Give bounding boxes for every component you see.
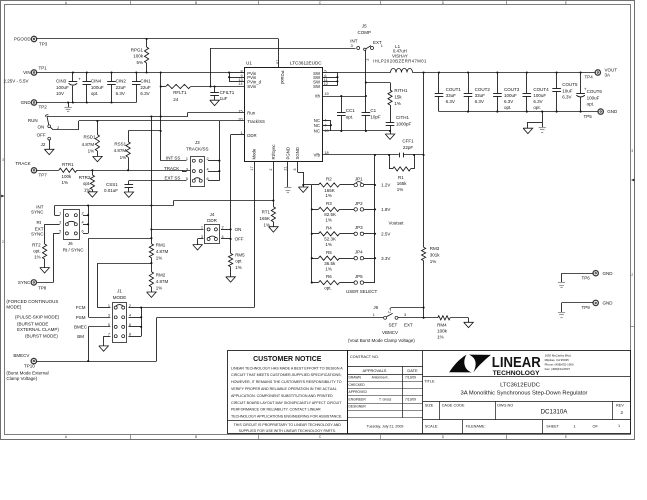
svg-text:Clamp Voltage): Clamp Voltage)	[6, 376, 37, 381]
svg-text:TP6: TP6	[582, 276, 591, 281]
svg-text:33uF: 33uF	[446, 93, 457, 98]
svg-text:1%: 1%	[437, 335, 444, 340]
capacitor COUT5	[556, 73, 558, 89]
svg-text:SET: SET	[389, 322, 398, 327]
svg-text:REV: REV	[616, 403, 624, 407]
svg-text:opt.: opt.	[83, 181, 91, 186]
wire Track/SS stub to J3 bus	[219, 120, 244, 122]
svg-text:Tuesday, July 21, 2009: Tuesday, July 21, 2009	[367, 424, 404, 428]
svg-text:7: 7	[108, 332, 110, 336]
svg-text:RM5: RM5	[235, 252, 245, 257]
svg-text:SIZE: SIZE	[425, 403, 434, 407]
test point TP7 TRACK	[31, 168, 36, 173]
svg-text:opt.: opt.	[346, 114, 354, 119]
svg-text:HOWEVER, IT REMAINS THE CUSTOM: HOWEVER, IT REMAINS THE CUSTOMER'S RESPO…	[231, 380, 342, 384]
test point TP1 VIN	[31, 70, 36, 75]
wire J3 pin3 TRACK	[182, 171, 187, 173]
svg-text:+: +	[584, 87, 587, 92]
svg-text:BMECV: BMECV	[13, 353, 29, 358]
resistor R1 parallel loop	[389, 155, 391, 169]
svg-text:TP3: TP3	[39, 42, 48, 47]
svg-text:(BURST MODE): (BURST MODE)	[25, 334, 58, 339]
resistor RTR2	[92, 170, 94, 175]
svg-text:SGND: SGND	[295, 147, 300, 159]
wire RSS1 top to riser	[128, 130, 161, 132]
capacitor CIN3	[72, 73, 74, 82]
svg-text:COUT4: COUT4	[533, 87, 549, 92]
svg-text:4.87M: 4.87M	[82, 142, 95, 147]
resistor RM1	[149, 244, 153, 258]
svg-text:4: 4	[207, 167, 209, 171]
svg-text:(Vout Burst Mode Clamp Voltage: (Vout Burst Mode Clamp Voltage)	[348, 338, 415, 343]
svg-text:Phone: (408)432-1900: Phone: (408)432-1900	[545, 362, 574, 366]
resistor R6 with jumper JP5	[311, 282, 313, 284]
svg-text:4: 4	[82, 221, 84, 225]
svg-text:100uF: 100uF	[533, 93, 546, 98]
svg-text:TECHNOLOGY APPLICATIONS ENGINE: TECHNOLOGY APPLICATIONS ENGINEERING FOR …	[231, 415, 342, 419]
wire J4 pin3 to ground	[198, 238, 204, 240]
ground earth below input bus	[68, 103, 70, 108]
svg-text:CIN1: CIN1	[140, 79, 151, 84]
connector J6 Rt/SYNC	[64, 210, 80, 240]
capacitor COUT4	[526, 73, 528, 94]
svg-text:3A: 3A	[605, 72, 611, 77]
svg-text:TP8: TP8	[38, 285, 47, 290]
svg-text:THIS CIRCUIT IS PROPRIETARY TO: THIS CIRCUIT IS PROPRIETARY TO LINEAR TE…	[234, 423, 342, 427]
svg-text:SYNC: SYNC	[31, 210, 44, 215]
svg-text:3: 3	[186, 167, 188, 171]
svg-text:2: 2	[82, 211, 84, 215]
svg-text:C1: C1	[370, 108, 376, 113]
svg-text:U1: U1	[246, 61, 252, 66]
svg-text:(BURST MODE: (BURST MODE	[17, 322, 48, 327]
svg-text:TP4: TP4	[585, 75, 594, 80]
svg-text:CFF1: CFF1	[402, 139, 414, 144]
svg-text:TRACK: TRACK	[15, 161, 30, 166]
svg-text:RTR1: RTR1	[62, 162, 74, 167]
svg-text:COMP: COMP	[358, 30, 372, 35]
svg-text:7/13/09: 7/13/09	[405, 397, 416, 401]
svg-text:1%: 1%	[84, 187, 91, 192]
wire VIN riser down to J3 INT SS	[160, 87, 162, 161]
wire RUN common to U1 Run pin	[47, 116, 188, 118]
capacitor CFILT1	[214, 87, 216, 93]
svg-text:NC: NC	[314, 129, 320, 134]
svg-text:EXTERNAL CLAMP): EXTERNAL CLAMP)	[17, 327, 59, 332]
svg-text:SUPPLIED FOR USE WITH LINEAR T: SUPPLIED FOR USE WITH LINEAR TECHNOLOGY …	[239, 429, 336, 433]
svg-text:33uF: 33uF	[475, 93, 486, 98]
inductor L1	[391, 68, 413, 72]
svg-text:FILENAME:: FILENAME:	[466, 424, 486, 428]
svg-text:1: 1	[618, 424, 620, 428]
svg-text:RT1: RT1	[262, 210, 271, 215]
wire PGOOD net	[37, 38, 279, 40]
title cell	[423, 376, 630, 378]
wire J1 pin1 FCM	[98, 307, 111, 309]
svg-text:CC1: CC1	[346, 108, 355, 113]
svg-text:J1: J1	[117, 289, 122, 294]
svg-text:2: 2	[365, 59, 369, 61]
svg-text:GND: GND	[607, 109, 618, 114]
wire comp INT line to J5	[210, 48, 212, 87]
svg-text:INT SS: INT SS	[166, 156, 180, 161]
svg-text:Rt: Rt	[37, 220, 42, 225]
svg-text:3A Monolithic Synchronous Step: 3A Monolithic Synchronous Step-Down Regu…	[461, 391, 588, 397]
svg-text:CIN4: CIN4	[91, 79, 102, 84]
svg-text:4: 4	[129, 314, 131, 318]
wire ladder left bus SGND	[311, 185, 313, 283]
svg-text:CHECKED: CHECKED	[349, 383, 366, 387]
svg-text:2: 2	[2, 240, 4, 244]
svg-text:RM4: RM4	[437, 323, 447, 328]
svg-text:22uF: 22uF	[116, 85, 127, 90]
svg-text:3: 3	[293, 168, 297, 170]
svg-text:R4: R4	[326, 225, 332, 230]
svg-text:6.3V: 6.3V	[504, 99, 513, 104]
svg-text:3.3V: 3.3V	[381, 256, 390, 261]
svg-text:165K: 165K	[259, 216, 270, 221]
svg-text:CUSTOMER NOTICE: CUSTOMER NOTICE	[253, 356, 322, 363]
svg-text:1%: 1%	[325, 242, 332, 247]
svg-text:6.3V: 6.3V	[140, 91, 149, 96]
svg-text:SHEET: SHEET	[546, 424, 559, 428]
svg-text:Track/SS: Track/SS	[247, 119, 265, 124]
svg-text:Antonina K.: Antonina K.	[372, 376, 389, 380]
svg-text:1uF: 1uF	[220, 96, 228, 101]
svg-text:CIN3: CIN3	[56, 79, 67, 84]
svg-text:8: 8	[129, 332, 131, 336]
svg-text:1%: 1%	[34, 255, 41, 260]
test point TP4 VOUT	[595, 70, 600, 75]
resistor RM5	[229, 253, 233, 266]
svg-text:1%: 1%	[120, 155, 127, 160]
wire J1 pin5 BMEC	[88, 326, 110, 328]
svg-text:CITH1: CITH1	[396, 115, 409, 120]
svg-text:RM2: RM2	[156, 273, 166, 278]
wire J9 pin2 to sense node	[391, 307, 423, 309]
wire J2 OFF to ground	[49, 140, 51, 149]
ground SGND triangle	[298, 187, 308, 192]
svg-text:22uF: 22uF	[140, 85, 151, 90]
test point TP5 GND	[598, 109, 603, 114]
wire J6 pin1 INT SYNC	[55, 215, 60, 217]
svg-text:15k: 15k	[394, 94, 402, 99]
svg-text:RUN: RUN	[28, 118, 38, 123]
svg-text:RFLT1: RFLT1	[173, 90, 187, 95]
svg-text:1%: 1%	[397, 187, 404, 192]
svg-text:CIN2: CIN2	[116, 79, 127, 84]
svg-text:10uF: 10uF	[562, 88, 573, 93]
capacitor CFF1	[399, 153, 401, 157]
svg-text:APPROVALS: APPROVALS	[363, 368, 387, 373]
svg-text:1%: 1%	[88, 148, 95, 153]
svg-text:opt.: opt.	[33, 249, 41, 254]
svg-text:ON: ON	[37, 125, 44, 130]
svg-text:1: 1	[59, 211, 61, 215]
svg-text:Rt/Sync: Rt/Sync	[271, 144, 276, 160]
svg-text:21: 21	[284, 166, 288, 170]
svg-text:14: 14	[238, 82, 242, 86]
svg-text:CONTRACT NO.: CONTRACT NO.	[350, 355, 379, 359]
wire J9 EXT to RM4	[398, 317, 438, 319]
test point TP2 GND	[31, 100, 36, 105]
resistor RTR1	[37, 170, 59, 172]
wire VOUT rail	[413, 72, 596, 74]
capacitor CIN4	[86, 73, 88, 82]
svg-text:TP7: TP7	[39, 173, 48, 178]
svg-text:TP10: TP10	[24, 363, 35, 368]
svg-text:JP5: JP5	[355, 274, 363, 279]
svg-text:1: 1	[373, 313, 375, 317]
svg-text:1%: 1%	[263, 223, 270, 228]
resistor RM4	[438, 316, 450, 320]
svg-text:SYNC: SYNC	[31, 231, 44, 236]
svg-text:100uF: 100uF	[587, 95, 600, 100]
svg-text:BMEC: BMEC	[74, 325, 88, 330]
svg-text:82.5K: 82.5K	[324, 212, 336, 217]
svg-text:DDR: DDR	[207, 218, 217, 223]
wire output ground bus	[439, 111, 598, 113]
svg-text:RSD1: RSD1	[83, 135, 96, 140]
wire Vout sense vertical	[423, 73, 425, 248]
svg-text:100k: 100k	[133, 54, 144, 59]
wire Vfb line	[323, 154, 424, 156]
svg-text:3: 3	[631, 149, 633, 153]
wire Ith line	[323, 96, 366, 98]
capacitor COUT6	[580, 73, 582, 94]
svg-text:RPG1: RPG1	[131, 47, 144, 52]
svg-text:2: 2	[269, 168, 273, 170]
svg-text:LTC3612EUDC: LTC3612EUDC	[500, 383, 540, 389]
wire J6 pin5 EXT SYNC to TP8	[53, 233, 59, 235]
wire SW pin stubs and bus	[323, 72, 338, 74]
svg-text:R5: R5	[326, 250, 332, 255]
svg-text:VBMCV: VBMCV	[382, 330, 398, 335]
svg-text:IHLP2020BZERR47M01: IHLP2020BZERR47M01	[373, 58, 427, 63]
svg-text:OFF: OFF	[235, 237, 244, 242]
svg-text:2: 2	[387, 311, 391, 313]
wire J1 pin3 PSM	[89, 317, 111, 319]
svg-text:COUT2: COUT2	[475, 87, 491, 92]
svg-text:(FORCED CONTINUOUS: (FORCED CONTINUOUS	[6, 299, 58, 304]
svg-text:INT: INT	[350, 38, 358, 43]
wire SW rail to L1	[337, 72, 390, 74]
svg-text:ENGINEER: ENGINEER	[349, 397, 367, 401]
svg-text:BM: BM	[77, 334, 84, 339]
svg-text:DWG.NO: DWG.NO	[497, 403, 513, 407]
resistor R5 with jumper JP4	[311, 257, 313, 259]
resistor R2 with jumper JP1	[312, 184, 319, 186]
svg-text:0.01uF: 0.01uF	[104, 188, 118, 193]
svg-text:R6: R6	[326, 274, 332, 279]
svg-text:5: 5	[59, 230, 61, 234]
svg-text:6.3V: 6.3V	[533, 99, 542, 104]
svg-text:J9: J9	[373, 305, 378, 310]
svg-text:TP5: TP5	[584, 114, 593, 119]
svg-text:10: 10	[324, 129, 328, 133]
wire input ground bus	[37, 102, 137, 104]
svg-text:R1: R1	[398, 175, 404, 180]
capacitor C1	[365, 112, 367, 114]
svg-text:COUT6: COUT6	[587, 89, 603, 94]
svg-text:VIN: VIN	[23, 70, 31, 75]
resistor R4 with jumper JP3	[311, 233, 313, 235]
wire NC bracket and bottom line	[323, 120, 331, 122]
svg-text:PGOOD: PGOOD	[14, 37, 32, 42]
svg-text:CIRCUIT BOARD LAYOUT MAY SIGNI: CIRCUIT BOARD LAYOUT MAY SIGNIFICANTLY A…	[231, 401, 342, 405]
svg-text:CSS1: CSS1	[106, 182, 118, 187]
svg-text:PGood: PGood	[280, 71, 285, 85]
svg-text:PERFORMANCE OR RELIABILITY. C: PERFORMANCE OR RELIABILITY. CONTACT LINE…	[231, 408, 321, 412]
svg-text:4.87M: 4.87M	[156, 249, 169, 254]
svg-text:opt.: opt.	[91, 91, 99, 96]
wire VIN rail	[37, 72, 230, 74]
svg-text:Milpitas, CA 95035: Milpitas, CA 95035	[545, 358, 569, 362]
svg-text:LTC3612EUDC: LTC3612EUDC	[290, 61, 322, 66]
svg-text:4.87M: 4.87M	[114, 148, 127, 153]
svg-text:TP2: TP2	[39, 104, 48, 109]
svg-text:CAGE CODE: CAGE CODE	[442, 403, 465, 407]
wire PVin bus at chip	[229, 73, 231, 82]
svg-text:CFILT1: CFILT1	[220, 90, 235, 95]
svg-text:19: 19	[324, 92, 328, 96]
svg-text:22pF: 22pF	[403, 145, 414, 150]
svg-text:6.3V: 6.3V	[446, 99, 455, 104]
svg-text:CIRCUIT THAT MEETS CUSTOMER-SU: CIRCUIT THAT MEETS CUSTOMER-SUPPLIED SPE…	[231, 373, 342, 377]
svg-text:2.25V - 5.5V: 2.25V - 5.5V	[4, 78, 29, 83]
resistor RT1	[271, 207, 275, 222]
svg-text:+: +	[78, 77, 81, 82]
svg-text:17: 17	[250, 166, 254, 170]
svg-text:Mode: Mode	[252, 148, 257, 159]
svg-text:J6: J6	[68, 241, 73, 246]
title block frame	[348, 351, 631, 434]
svg-text:DDR: DDR	[247, 133, 256, 138]
test point TP9 GND	[593, 300, 598, 305]
svg-text:36.5k: 36.5k	[324, 261, 336, 266]
svg-text:Vfb: Vfb	[314, 153, 321, 158]
capacitor COUT3	[497, 73, 499, 94]
wire SGND stub from U1	[297, 162, 299, 172]
svg-text:Rt / SYNC: Rt / SYNC	[63, 247, 85, 252]
svg-text:RSS1: RSS1	[114, 141, 126, 146]
svg-text:LINEAR TECHNOLOGY HAS MADE A B: LINEAR TECHNOLOGY HAS MADE A BEST EFFORT…	[231, 366, 343, 370]
ground below CITH1	[389, 130, 391, 132]
wire J3 pin5 to CSS1	[129, 180, 187, 182]
ground symbols below output bus	[542, 112, 544, 122]
svg-text:1.8V: 1.8V	[381, 207, 390, 212]
svg-text:ON: ON	[235, 227, 242, 232]
svg-text:R3: R3	[326, 201, 332, 206]
svg-text:15: 15	[238, 110, 242, 114]
linear technology logo	[449, 355, 472, 373]
svg-text:GND: GND	[603, 301, 614, 306]
svg-text:APPROVED: APPROVED	[349, 390, 368, 394]
resistor RM2	[149, 272, 153, 287]
svg-text:1%: 1%	[325, 218, 332, 223]
resistor R3 with jumper JP2	[311, 208, 313, 210]
svg-text:J3: J3	[195, 140, 200, 145]
svg-text:RM3: RM3	[430, 246, 440, 251]
svg-text:GND: GND	[21, 100, 32, 105]
svg-text:USER SELECT: USER SELECT	[346, 289, 378, 294]
svg-text:3: 3	[2, 158, 4, 162]
svg-text:COUT5: COUT5	[562, 82, 578, 87]
svg-text:Voutset: Voutset	[389, 221, 405, 226]
test point TP6 GND	[593, 271, 598, 276]
svg-text:EXT SS: EXT SS	[165, 176, 181, 181]
svg-text:52.3K: 52.3K	[324, 237, 336, 242]
svg-text:3: 3	[404, 313, 406, 317]
svg-text:R2: R2	[326, 177, 332, 182]
size cage dwg row	[423, 401, 630, 403]
svg-text:JP2: JP2	[355, 201, 363, 206]
wire J4 pin1 to RM column	[151, 229, 203, 231]
capacitor CITH1	[386, 122, 395, 124]
svg-text:1.2V: 1.2V	[381, 183, 390, 188]
wire RM column	[151, 117, 153, 244]
scale filename sheet row	[423, 419, 630, 421]
capacitor CSS1	[128, 181, 130, 185]
svg-text:opt.: opt.	[533, 105, 541, 110]
svg-text:5%: 5%	[136, 60, 143, 65]
ground PGND gray	[287, 162, 289, 188]
svg-text:TRACK: TRACK	[164, 166, 179, 171]
svg-text:PGND: PGND	[286, 147, 291, 159]
svg-text:3: 3	[59, 221, 61, 225]
svg-text:1%: 1%	[430, 259, 437, 264]
wire ladder right bus to Vfb	[374, 155, 376, 283]
svg-text:LINEAR: LINEAR	[492, 355, 541, 371]
resistor RPG1	[146, 39, 148, 47]
svg-text:JP3: JP3	[355, 225, 363, 230]
wire RUN ON branch	[50, 127, 53, 130]
svg-text:2: 2	[222, 226, 224, 230]
svg-text:100uF: 100uF	[56, 85, 69, 90]
svg-text:1000pF: 1000pF	[396, 121, 412, 126]
svg-text:TP9: TP9	[582, 305, 591, 310]
svg-text:opt.: opt.	[504, 105, 512, 110]
svg-text:3: 3	[108, 314, 110, 318]
svg-text:1: 1	[201, 226, 203, 230]
svg-text:1%: 1%	[235, 265, 242, 270]
test point TP3 PGOOD	[31, 36, 36, 41]
wire J3 pin1 to riser	[161, 160, 187, 162]
svg-text:SW: SW	[313, 84, 321, 89]
svg-text:NC: NC	[314, 123, 320, 128]
capacitor CIN2	[111, 73, 113, 82]
svg-text:(Burst Mode External: (Burst Mode External	[6, 371, 48, 376]
svg-text:2: 2	[57, 126, 59, 130]
svg-text:J5: J5	[362, 23, 367, 28]
svg-text:24: 24	[173, 97, 179, 102]
svg-text:JP1: JP1	[355, 176, 363, 181]
svg-text:TITLE: TITLE	[424, 380, 435, 384]
wire J6 right bus	[83, 215, 88, 217]
wire J1 right bus to Mode	[129, 307, 142, 309]
svg-text:VERIFY PROPER AND RELIABLE OPE: VERIFY PROPER AND RELIABLE OPERATION IN …	[231, 387, 337, 391]
resistor RSS1	[128, 131, 130, 142]
svg-text:PSM: PSM	[76, 315, 86, 320]
wire FCM to RM midpoint	[98, 263, 152, 265]
svg-text:Fax: (408)434-0507: Fax: (408)434-0507	[545, 367, 571, 371]
wire DDR net	[231, 134, 245, 136]
svg-text:MODE: MODE	[113, 295, 127, 300]
svg-text:1: 1	[574, 424, 576, 428]
svg-text:RM1: RM1	[156, 242, 166, 247]
svg-text:DC1310A: DC1310A	[541, 409, 569, 416]
svg-text:SYNC: SYNC	[18, 280, 31, 285]
